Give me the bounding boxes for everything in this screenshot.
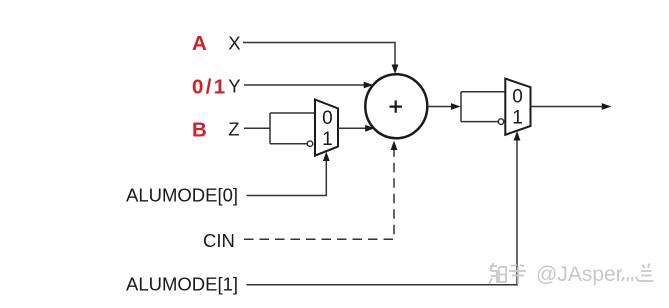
adder U1	[365, 74, 427, 138]
svg-text:Y: Y	[228, 76, 240, 97]
svg-text:@JAsper: @JAsper	[536, 263, 623, 286]
mux M1	[315, 100, 338, 156]
wire final output	[531, 106, 603, 108]
wire ALUMODE[0] select	[247, 160, 327, 196]
svg-text:A: A	[192, 32, 207, 55]
wire adder output	[427, 106, 451, 108]
plus sign	[390, 100, 402, 112]
svg-text:X: X	[228, 33, 240, 54]
svg-text:0: 0	[512, 87, 523, 108]
svg-text:1: 1	[512, 108, 523, 129]
wire M1 output to adder	[338, 127, 366, 129]
svg-text:B: B	[192, 119, 207, 142]
svg-text:ALUMODE[1]: ALUMODE[1]	[126, 274, 238, 295]
svg-text:0: 0	[322, 108, 333, 129]
mux M2	[505, 79, 530, 135]
wire Z fork	[269, 113, 271, 144]
wire ALUMODE[1] select	[247, 140, 518, 285]
svg-text:CIN: CIN	[203, 230, 235, 251]
wire Y input	[244, 84, 365, 86]
svg-text:0/1: 0/1	[192, 76, 227, 99]
watermark zhihu	[489, 263, 526, 284]
inverter bubble mux M2 input 1	[498, 119, 504, 125]
svg-text:ALUMODE[0]: ALUMODE[0]	[126, 185, 238, 206]
wire Z input	[244, 127, 270, 129]
wire X input	[243, 43, 395, 67]
svg-text:1: 1	[322, 129, 333, 150]
svg-text:Z: Z	[228, 119, 239, 140]
wire CIN dashed	[244, 150, 394, 240]
wire fork to M2	[460, 92, 462, 122]
inverter bubble mux M1 input 1	[307, 141, 313, 147]
